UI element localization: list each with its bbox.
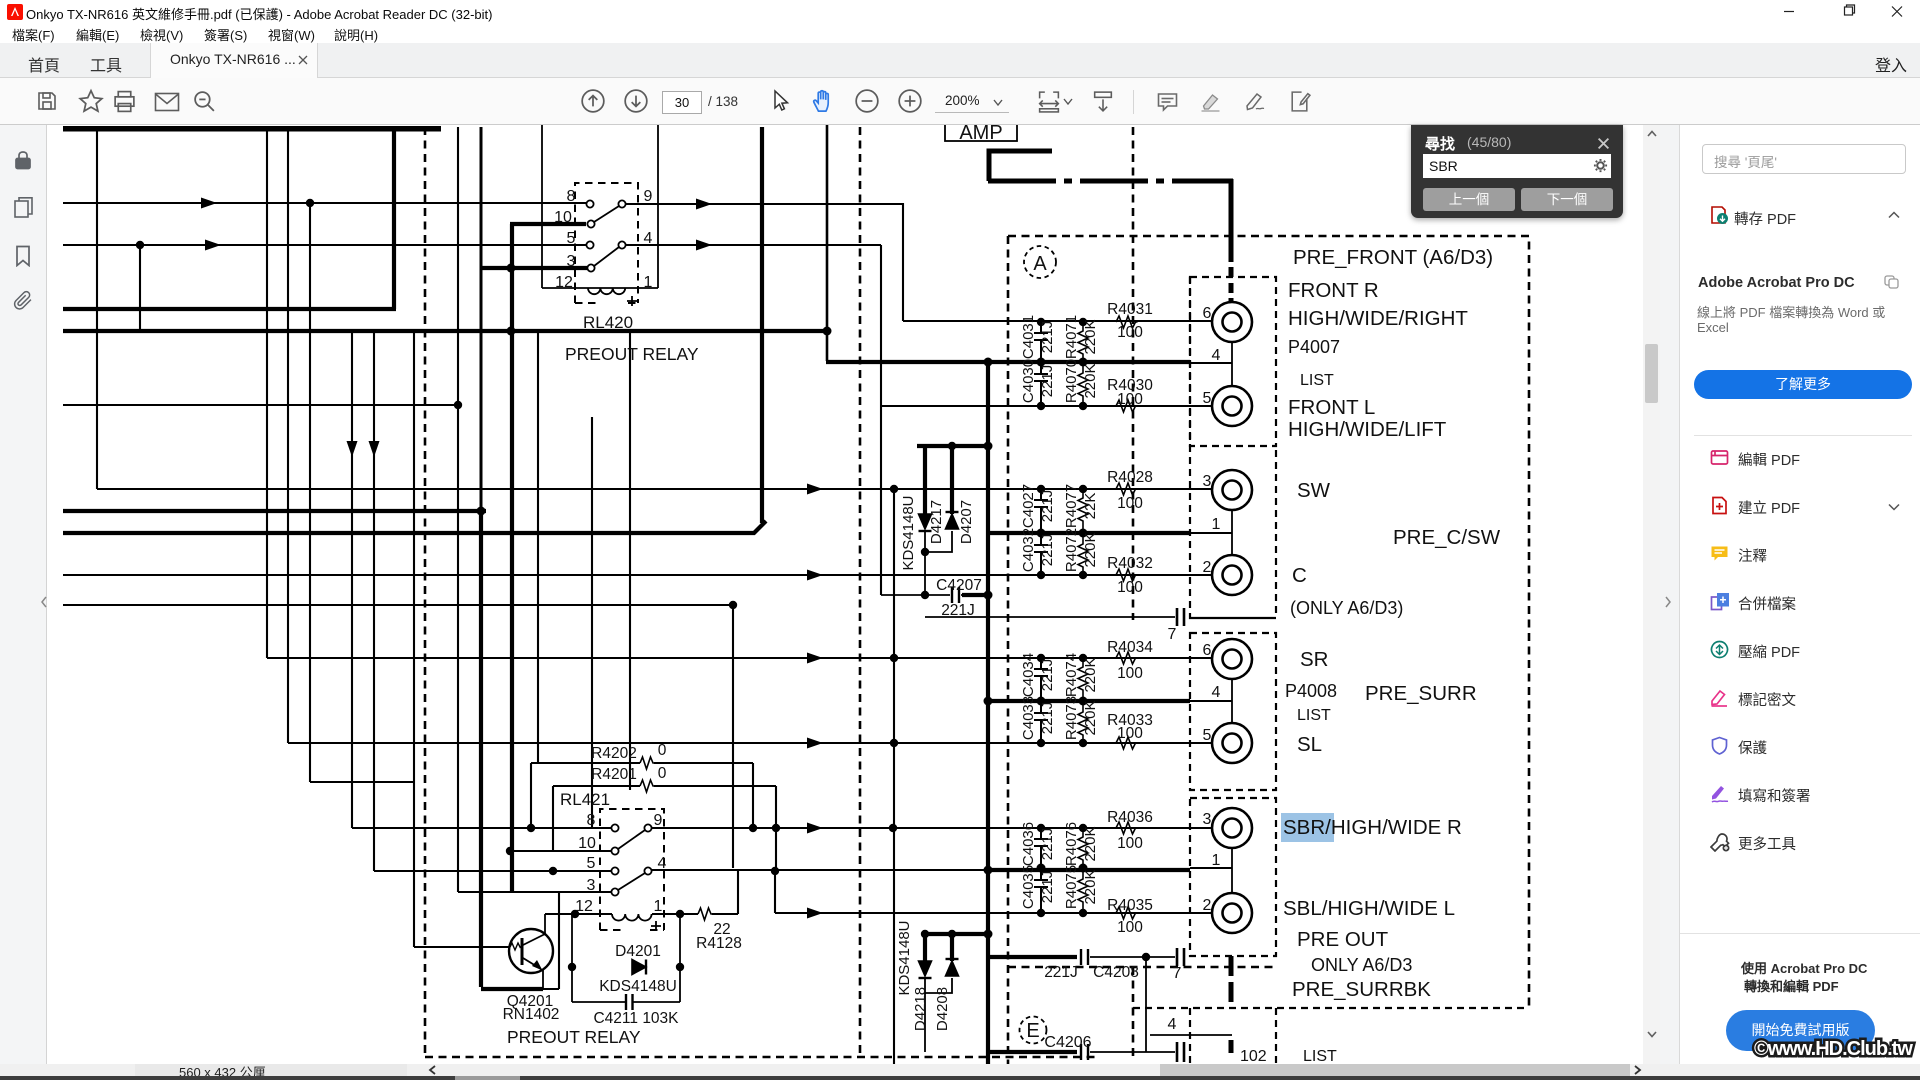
- svg-text:R4073: R4073: [1063, 696, 1080, 740]
- svg-text:D4218: D4218: [912, 987, 929, 1031]
- wire pin4 jog x775: [774, 871, 776, 913]
- wire relay RL420 pin3 feed: [481, 266, 588, 270]
- AMP box: [945, 116, 1017, 144]
- svg-text:100: 100: [1117, 579, 1143, 596]
- svg-text:C: C: [1292, 564, 1307, 587]
- relay RL421 coil: [612, 914, 652, 921]
- svg-text:KDS4148U: KDS4148U: [599, 978, 677, 995]
- wire line y605: [63, 604, 733, 606]
- resistor R4072: [1078, 533, 1088, 575]
- wire line C y575: [63, 574, 1212, 576]
- highlighter: [1198, 90, 1223, 114]
- wire line y245 left: [63, 244, 587, 246]
- relay RL420 blades: [594, 206, 619, 266]
- svg-text:5: 5: [1203, 390, 1212, 407]
- svg-text:4: 4: [1212, 684, 1221, 701]
- svg-text:R4035: R4035: [1107, 897, 1153, 914]
- svg-text:6: 6: [1203, 642, 1212, 659]
- svg-text:P4007: P4007: [1288, 337, 1340, 357]
- svg-text:HIGH/WIDE/RIGHT: HIGH/WIDE/RIGHT: [1288, 307, 1468, 330]
- scroll page: [1090, 89, 1116, 114]
- svg-text:PREOUT RELAY: PREOUT RELAY: [565, 344, 699, 364]
- svg-text:220K: 220K: [1082, 532, 1099, 567]
- svg-text:R4077: R4077: [1063, 484, 1080, 528]
- svg-text:12: 12: [555, 274, 573, 291]
- wire thick rail y362: [826, 360, 1190, 364]
- wire vertical x310: [309, 203, 311, 782]
- wire line y405: [63, 404, 458, 406]
- resistor R4070: [1078, 362, 1088, 406]
- svg-text:R4075: R4075: [1063, 865, 1080, 909]
- resistor R4075: [1078, 868, 1088, 913]
- wire pin1 stub y533: [988, 531, 1190, 535]
- wire diode D4208 lead: [950, 932, 954, 961]
- svg-text:KDS4148U: KDS4148U: [896, 920, 913, 995]
- wire diode D4207 lead: [950, 444, 954, 514]
- capacitor pin7 b: [1177, 948, 1184, 966]
- relay RL420 coil: [588, 288, 625, 294]
- wire vertical x267: [266, 127, 268, 658]
- svg-text:A: A: [1033, 253, 1047, 275]
- svg-text:LIST: LIST: [1297, 707, 1331, 724]
- wire AMP dash-dot: [988, 179, 1233, 184]
- PREOUT RELAY dashed box: [425, 127, 1100, 1057]
- capacitor C4034: [1034, 658, 1048, 701]
- wire corner x559: [543, 892, 559, 989]
- wire vertical x531: [530, 763, 532, 828]
- svg-text:100: 100: [1117, 324, 1143, 341]
- resistor R4032: [1116, 569, 1138, 581]
- svg-text:D4207: D4207: [958, 500, 975, 544]
- svg-text:221J: 221J: [1039, 365, 1056, 398]
- wire line FRONTR y321: [903, 320, 1212, 322]
- resistor R4128: [698, 908, 713, 920]
- wire base line y947: [414, 946, 510, 948]
- svg-text:22K: 22K: [1082, 493, 1099, 520]
- svg-text:0: 0: [658, 765, 667, 782]
- svg-text:9: 9: [654, 812, 663, 829]
- svg-text:1: 1: [1212, 516, 1221, 533]
- svg-text:P4008: P4008: [1285, 681, 1337, 701]
- wire thick bus x512: [510, 224, 514, 892]
- wire bus x827: [826, 125, 829, 361]
- wire diode rail2 y934: [925, 932, 988, 936]
- wire cable drop x1231: [1229, 179, 1234, 303]
- capacitor C4206: [1081, 1044, 1088, 1060]
- svg-text:220K: 220K: [1082, 363, 1099, 398]
- wire pin4 bottom row: [1150, 1034, 1232, 1036]
- svg-text:6: 6: [1203, 305, 1212, 322]
- svg-text:SBL/HIGH/WIDE L: SBL/HIGH/WIDE L: [1283, 897, 1455, 920]
- cursor: [768, 89, 792, 113]
- jack SBR: [1212, 808, 1252, 848]
- resistor R4071: [1078, 322, 1088, 362]
- wire thick bus x988: [986, 362, 990, 1064]
- relay RL421 plus: [651, 921, 661, 931]
- status bar: [0, 1064, 1920, 1076]
- svg-text:102: 102: [1240, 1048, 1267, 1064]
- svg-text:100: 100: [1117, 495, 1143, 512]
- svg-text:C4206: C4206: [1044, 1034, 1091, 1051]
- jack FRONT R: [1212, 302, 1252, 342]
- svg-text:C4035: C4035: [1020, 865, 1037, 909]
- svg-text:FRONT L: FRONT L: [1288, 396, 1375, 419]
- wire thin bus x481 upper: [480, 127, 483, 511]
- resistor R4033: [1116, 737, 1138, 749]
- wire R4201 row y786: [553, 785, 776, 787]
- svg-text:SBR/HIGH/WIDE R: SBR/HIGH/WIDE R: [1283, 816, 1462, 839]
- svg-text:221J: 221J: [1044, 964, 1078, 981]
- wire vertical x630: [629, 331, 631, 790]
- wire C4208 row y957: [988, 955, 1077, 959]
- wire line y851: [510, 850, 612, 852]
- relay RL421 contacts: [611, 824, 651, 895]
- PRE_FRONT outer dashed box: [1008, 236, 1529, 1064]
- svg-text:PRE_FRONT (A6/D3): PRE_FRONT (A6/D3): [1293, 246, 1493, 269]
- hand (active blue): [810, 87, 837, 115]
- wire drop x733: [732, 605, 734, 868]
- tool list: [1710, 448, 1729, 467]
- node junction dots: [136, 199, 1150, 971]
- magnifier: [192, 89, 217, 114]
- svg-text:SW: SW: [1297, 479, 1331, 502]
- svg-text:C4032: C4032: [1020, 528, 1037, 572]
- resistor R4073: [1078, 701, 1088, 743]
- svg-text:2: 2: [1203, 559, 1212, 576]
- svg-text:D4217: D4217: [928, 500, 945, 544]
- wire thick rail y511: [63, 509, 486, 513]
- page up: [580, 88, 606, 114]
- lock: [13, 149, 33, 171]
- svg-text:1: 1: [654, 898, 663, 915]
- svg-text:E: E: [1026, 1020, 1039, 1042]
- resistor R4034: [1116, 652, 1138, 664]
- svg-text:10: 10: [554, 209, 572, 226]
- svg-text:C4034: C4034: [1020, 653, 1037, 697]
- svg-text:R4070: R4070: [1063, 359, 1080, 403]
- wire line SW y489: [97, 488, 1212, 490]
- capacitor pin7 c: [1177, 1042, 1184, 1062]
- wire line y782: [310, 781, 414, 783]
- svg-text:100: 100: [1117, 725, 1143, 742]
- wire diode bottoms y993: [925, 978, 952, 1052]
- svg-text:100: 100: [1117, 391, 1143, 408]
- svg-text:221J: 221J: [1039, 828, 1056, 861]
- relay RL420 dashed box: [575, 183, 638, 303]
- wire pin4 row y870: [651, 869, 988, 871]
- svg-text:100: 100: [1117, 919, 1143, 936]
- wire pin1 stub y363: [1190, 362, 1232, 364]
- wire line FRONTL y406: [881, 405, 1212, 407]
- wire C4206 row y1052: [988, 1050, 1077, 1054]
- svg-text:R4072: R4072: [1063, 528, 1080, 572]
- wire pin1 thin y533: [1190, 532, 1232, 534]
- label SBR highlight: [1281, 813, 1334, 842]
- wire vertical x97: [96, 131, 98, 489]
- svg-text:C4030: C4030: [1020, 359, 1037, 403]
- wire vertical x414: [413, 331, 415, 947]
- wire line y203 right: [625, 203, 903, 205]
- wire corner x738: [737, 871, 739, 914]
- svg-text:R4034: R4034: [1107, 639, 1153, 656]
- wire thick pin1 y868 stub: [1190, 867, 1232, 869]
- svg-text:220K: 220K: [1082, 700, 1099, 735]
- wire vertical x776: [775, 786, 777, 871]
- wire C4207 row: [881, 594, 964, 596]
- capacitor C4033: [1034, 701, 1048, 743]
- svg-text:220K: 220K: [1082, 869, 1099, 904]
- wire line SR y658: [267, 657, 1212, 659]
- wire thick rail y870: [988, 868, 1190, 872]
- diode D4208: [946, 961, 959, 976]
- wire line y871 left: [374, 870, 612, 872]
- svg-text:PRE_SURRBK: PRE_SURRBK: [1292, 978, 1431, 1001]
- resistor R4074: [1078, 658, 1088, 701]
- svg-text:3: 3: [1203, 473, 1212, 490]
- svg-text:C4211 103K: C4211 103K: [593, 1010, 679, 1027]
- wire diode bottoms y552: [925, 531, 952, 595]
- page down: [623, 88, 649, 114]
- svg-text:7: 7: [1173, 965, 1182, 982]
- wire vertical x352: [351, 331, 353, 828]
- relay RL420 box: [542, 125, 658, 288]
- wire diode D4218 lead: [923, 932, 927, 961]
- svg-text:R4201: R4201: [591, 766, 637, 783]
- zoom in: [897, 88, 923, 114]
- connector dashed boxes: [1190, 277, 1276, 446]
- svg-text:RL420: RL420: [583, 313, 633, 332]
- svg-text:2: 2: [1203, 897, 1212, 914]
- wire thick rail y331: [63, 329, 827, 333]
- transistor Q4201: [509, 929, 553, 973]
- svg-text:8: 8: [567, 188, 576, 205]
- watermark: [1754, 1038, 1912, 1061]
- svg-text:4: 4: [1212, 347, 1221, 364]
- svg-text:R4071: R4071: [1063, 315, 1080, 359]
- node E: [1020, 1017, 1047, 1044]
- resistor R4028: [1116, 483, 1138, 495]
- wire AMP feed: [989, 151, 1052, 181]
- jack C: [1212, 555, 1252, 595]
- wire diode D4217 lead: [923, 444, 927, 514]
- wire line SBL y913: [775, 912, 1212, 914]
- wire relay RL420 pin10 feed: [510, 222, 586, 226]
- diode D4218: [919, 961, 932, 976]
- arrowheads: [201, 198, 823, 919]
- jack SL: [1212, 723, 1252, 763]
- svg-text:PRE_C/SW: PRE_C/SW: [1393, 526, 1501, 549]
- svg-text:C4027: C4027: [1020, 484, 1037, 528]
- svg-text:12: 12: [575, 898, 593, 915]
- svg-text:221J: 221J: [1039, 321, 1056, 354]
- resistor R4031: [1116, 316, 1138, 328]
- wire top heavy bar: [63, 126, 441, 132]
- svg-text:C4031: C4031: [1020, 315, 1037, 359]
- doc pen: [1287, 89, 1312, 114]
- svg-text:220K: 220K: [1082, 826, 1099, 861]
- dashed vertical x1133: [1132, 127, 1135, 1057]
- svg-text:PRE_SURR: PRE_SURR: [1365, 682, 1477, 705]
- capacitor C4211: [626, 994, 633, 1010]
- svg-text:1: 1: [1212, 852, 1221, 869]
- resistor R4076: [1078, 828, 1088, 868]
- svg-text:LIST: LIST: [1303, 1048, 1337, 1064]
- wire vertical x592: [591, 417, 593, 828]
- comment: [1155, 90, 1180, 114]
- wire pin4 stub y701: [1190, 700, 1232, 702]
- svg-text:ONLY A6/D3: ONLY A6/D3: [1311, 955, 1412, 975]
- wire line y245 right: [625, 244, 881, 246]
- capacitor pin7 a: [1177, 608, 1184, 626]
- svg-text:221J: 221J: [1039, 871, 1056, 904]
- capacitor C4035: [1034, 868, 1048, 913]
- svg-text:R4076: R4076: [1063, 822, 1080, 866]
- jack SBL: [1212, 893, 1252, 933]
- capacitor C4208: [1081, 949, 1088, 965]
- dashed vertical x860: [859, 127, 862, 1057]
- resistor R4077: [1078, 489, 1088, 533]
- svg-text:221J: 221J: [1039, 659, 1056, 692]
- wire drop x1146: [1145, 957, 1147, 1052]
- svg-text:R4028: R4028: [1107, 469, 1153, 486]
- svg-text:D4208: D4208: [934, 987, 951, 1031]
- wire thick L x394: [63, 129, 396, 309]
- resistor R4036: [1116, 822, 1138, 834]
- wire vertical x753: [752, 763, 754, 828]
- svg-text:(ONLY A6/D3): (ONLY A6/D3): [1290, 598, 1403, 618]
- diode D4217: [919, 514, 932, 529]
- wire line y203 left: [63, 202, 587, 204]
- svg-text:4: 4: [644, 230, 653, 247]
- resistor R4035: [1116, 907, 1138, 919]
- svg-text:D4201: D4201: [615, 943, 661, 960]
- node A: [1024, 246, 1056, 278]
- svg-text:AMP: AMP: [959, 125, 1002, 144]
- svg-text:5: 5: [587, 855, 596, 872]
- capacitor C4207: [952, 587, 959, 603]
- wire vertical x553: [552, 786, 554, 851]
- svg-text:5: 5: [1203, 727, 1212, 744]
- svg-text:220K: 220K: [1082, 319, 1099, 354]
- capacitor C4031: [1034, 322, 1048, 362]
- svg-text:LIST: LIST: [1300, 372, 1334, 389]
- diode D4207: [946, 514, 959, 529]
- svg-text:221J: 221J: [1039, 534, 1056, 567]
- svg-text:PREOUT RELAY: PREOUT RELAY: [507, 1027, 641, 1047]
- star: [78, 88, 104, 114]
- diode D4201: [632, 960, 646, 975]
- wire vertical x288: [287, 127, 289, 743]
- save: [35, 89, 59, 113]
- svg-text:3: 3: [587, 877, 596, 894]
- relay RL420 contacts: [586, 200, 625, 271]
- jack FRONT L: [1212, 386, 1252, 426]
- wire C4206 to pin7: [1090, 1051, 1175, 1053]
- capacitor C4030: [1034, 362, 1048, 406]
- collapse handle: [40, 595, 48, 609]
- svg-text:R4074: R4074: [1063, 653, 1080, 697]
- wire pin7 row y617: [925, 616, 1175, 618]
- wire vertical x894: [893, 489, 895, 1064]
- svg-text:PRE OUT: PRE OUT: [1297, 928, 1389, 951]
- wire pin12 row y914: [545, 913, 738, 915]
- relay RL421 dashed box: [600, 809, 664, 930]
- svg-text:HIGH/WIDE/LIFT: HIGH/WIDE/LIFT: [1288, 418, 1447, 441]
- printer: [112, 89, 137, 114]
- jack SW: [1212, 470, 1252, 510]
- svg-text:C4208: C4208: [1093, 964, 1139, 981]
- svg-text:R4036: R4036: [1107, 809, 1153, 826]
- svg-text:220K: 220K: [1082, 657, 1099, 692]
- wire line y892: [458, 891, 612, 893]
- wire vertical x458: [457, 127, 459, 892]
- svg-text:5: 5: [567, 230, 576, 247]
- wire vertical x374: [373, 331, 375, 871]
- capacitor C4032: [1034, 533, 1048, 575]
- svg-text:100: 100: [1117, 665, 1143, 682]
- resistor R4201: [640, 780, 655, 792]
- wire line SBR y828 left: [352, 827, 612, 829]
- svg-text:FRONT R: FRONT R: [1288, 279, 1379, 302]
- resistor R4030: [1116, 400, 1138, 412]
- zoom out: [854, 88, 880, 114]
- svg-text:4: 4: [1168, 1016, 1177, 1033]
- svg-text:0: 0: [658, 742, 667, 759]
- svg-text:3: 3: [1203, 811, 1212, 828]
- relay RL420 plus: [627, 296, 637, 306]
- svg-text:1: 1: [644, 274, 653, 291]
- svg-text:9: 9: [644, 188, 653, 205]
- svg-text:C4036: C4036: [1020, 822, 1037, 866]
- svg-text:100: 100: [1117, 835, 1143, 852]
- svg-text:C4033: C4033: [1020, 696, 1037, 740]
- svg-text:221J: 221J: [941, 602, 975, 619]
- svg-text:R4031: R4031: [1107, 301, 1153, 318]
- sign pen: [1242, 90, 1268, 114]
- wire vertical x538: [537, 331, 539, 763]
- svg-text:7: 7: [1168, 626, 1177, 643]
- relay RL421 blades: [618, 830, 645, 890]
- wire R4202 row y763: [531, 762, 753, 764]
- svg-text:R4128: R4128: [696, 935, 742, 952]
- vertical scrollbar: [1643, 125, 1660, 1064]
- capacitor C4036: [1034, 828, 1048, 868]
- svg-text:RL421: RL421: [560, 790, 610, 809]
- svg-text:C4207: C4207: [936, 577, 982, 594]
- wire thick rail y701: [988, 699, 1190, 703]
- wire C4208 to pin7: [1090, 956, 1175, 958]
- wire cable dashes bottom x1231: [1229, 956, 1234, 1053]
- wire jog x903: [902, 203, 904, 321]
- wire thick bus x481 lower: [481, 509, 543, 989]
- envelope: [154, 91, 180, 113]
- svg-text:R4202: R4202: [591, 745, 637, 762]
- svg-text:3: 3: [567, 253, 576, 270]
- fit width: [1036, 89, 1062, 114]
- svg-text:221J: 221J: [1039, 702, 1056, 735]
- wire line SL y743: [288, 742, 1212, 744]
- resistor R4202: [640, 757, 655, 769]
- right gutter: [1660, 125, 1680, 1080]
- jack link verticals: [1231, 342, 1233, 893]
- jack SR: [1212, 639, 1252, 679]
- wire thick rail y533: [63, 521, 766, 533]
- svg-text:KDS4148U: KDS4148U: [900, 495, 917, 570]
- svg-text:221J: 221J: [1039, 490, 1056, 523]
- wire thick bus x762: [760, 127, 764, 523]
- search overlay: [1411, 125, 1623, 218]
- svg-text:10: 10: [578, 835, 596, 852]
